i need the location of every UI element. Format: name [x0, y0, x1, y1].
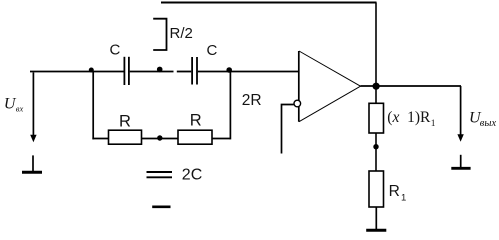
wire: segment to op-amp input [198, 71, 299, 73]
wire: short segment before second capacitor [177, 71, 191, 73]
ground (below R1) [366, 207, 386, 230]
wire: lower branch left vertical [92, 72, 94, 140]
capacitor C1 [124, 57, 128, 85]
svg-text:R: R [190, 111, 202, 129]
source arrow Uvx [30, 73, 36, 143]
wire: between divider resistors [375, 133, 377, 171]
op-amp U1 [299, 51, 361, 122]
wire: lower branch to right vertical [212, 138, 230, 140]
resistor R (right) [178, 130, 212, 144]
wire: op-amp output [361, 85, 462, 87]
svg-text:2C: 2C [182, 166, 202, 183]
resistor R/2 (bracket symbol) [153, 19, 166, 50]
resistor R1 [369, 171, 384, 207]
wire: inverting input stub [282, 105, 294, 154]
wire: output node to divider [375, 89, 377, 104]
ground (input) [22, 155, 42, 172]
resistor R (left) [109, 130, 142, 144]
svg-text:C: C [207, 42, 218, 59]
svg-text:R/2: R/2 [170, 25, 193, 42]
resistor (x-1)R1 [369, 103, 384, 133]
wire: input wire segment (left) [30, 71, 124, 73]
wire: segment between capacitors [130, 71, 174, 73]
capacitor 2C (horizontal plates) [147, 172, 173, 177]
svg-text:2R: 2R [242, 92, 262, 109]
node: lower branch midpoint [157, 135, 162, 140]
ground (output) [451, 155, 470, 169]
svg-text:C: C [110, 42, 121, 59]
node: 2R branch junction [226, 67, 232, 73]
node: output junction [373, 83, 380, 90]
node: input junction [89, 68, 94, 73]
node: capacitor midpoint [157, 67, 163, 73]
output arrow Uvyx [457, 86, 463, 142]
wire: lower branch to left resistor [92, 138, 108, 140]
op-amp inverting input circle [294, 100, 301, 107]
capacitor C2 [192, 57, 197, 85]
wire: feedback vertical to output node [375, 3, 377, 87]
ground (below 2C, bar only) [152, 206, 170, 209]
wire: lower branch right vertical [229, 72, 231, 140]
svg-text:R: R [119, 112, 131, 130]
wire: between lower resistors [142, 138, 179, 140]
wire: top feedback line [161, 2, 377, 4]
node: divider tap [373, 144, 378, 149]
